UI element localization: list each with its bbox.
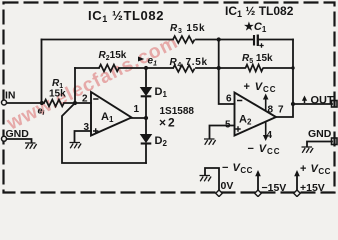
wire left vertical input to top row [41,40,43,104]
svg-text:R4 7.5k: R4 7.5k [170,57,208,69]
ground symbol 0V [200,176,212,182]
wire right feedback vertical [292,40,294,105]
op-amp A2 minus sign [237,100,242,102]
arrowhead +15V lead [294,170,300,176]
diode D2 [141,135,152,144]
node dot R5 right [291,66,294,69]
resistor R5 [246,65,263,72]
svg-text:GND: GND [308,128,332,140]
wire R2/R4/R5 row [75,67,293,69]
resistor R1 [44,100,64,107]
wire A2 output [276,104,293,117]
watermark www.elecfans.com [3,31,182,135]
terminal diamond +15V [294,190,301,197]
node dot A1 inverting input [73,101,77,105]
ground symbol GND-right [302,147,314,153]
resistor R2 [99,65,119,72]
node dot summing R4/R5 [217,66,221,70]
svg-text:R5 15k: R5 15k [242,53,273,65]
svg-text:15k: 15k [49,89,66,100]
wire 0V bracket [205,168,219,191]
resistor R4 [173,65,195,72]
op-amp A2 [235,93,277,136]
wire vertical at summing node to A2 pin6 [219,40,235,105]
op-amp A1 minus sign [93,98,98,100]
svg-text:R3 15k: R3 15k [170,23,205,35]
arrowhead -15V lead [255,170,261,176]
terminal GND-left [2,136,7,141]
wire OUT lead [293,103,332,105]
wire vertical node to R2 row [74,68,76,103]
op-amp A2 plus sign [235,126,240,131]
wire diode chain vertical [145,68,147,163]
terminal OUT [332,101,338,108]
svg-text:8: 8 [268,105,274,116]
wire IN row [6,102,91,104]
wire top feedback row [42,39,294,41]
capacitor C1 polarity + [259,43,263,47]
svg-text:+15V: +15V [300,182,325,194]
svg-text:3: 3 [84,122,90,133]
svg-text:×2: ×2 [159,116,177,130]
terminal diamond -15V [255,190,262,197]
svg-text:OUT: OUT [311,95,335,107]
svg-text:1: 1 [134,104,140,115]
svg-text:5: 5 [225,120,231,131]
node dot top row [217,37,221,41]
svg-text:7: 7 [278,105,284,116]
svg-text:6: 6 [226,94,232,105]
diode D1 [141,88,152,97]
wire D2 return path [62,103,146,163]
OUT arrow [304,100,306,104]
svg-text:IC1 ½TL082: IC1 ½TL082 [88,8,164,24]
op-amp A1 plus sign [93,128,98,133]
node dot e1 [144,66,148,70]
op-amp A2 +Vcc pin 8 arrow [265,97,267,111]
terminal GND right [332,138,338,145]
wire GND terminal lead [6,139,32,143]
node dot output junction [291,102,295,106]
ground symbol A2 pin5 [204,139,216,145]
ground symbol A1 pin3 [70,143,82,149]
wire -15V lead [257,173,259,191]
wire A2 pin5 to ground [210,126,235,139]
wire +15V lead [296,173,298,191]
svg-text:R215k: R215k [99,50,127,62]
svg-text:0V: 0V [221,180,234,192]
op-amp A1 [91,92,132,136]
wire A1 output to diode node [132,117,147,119]
svg-text:IN: IN [5,90,16,102]
label e1 arrow wedge [138,57,144,62]
resistor R3 [173,36,195,43]
capacitor C1 [254,35,258,47]
wire A1 pin3 to ground [75,131,92,142]
frame border (dashed) [4,3,335,193]
svg-text:GND: GND [6,128,30,140]
node dot diode junction [144,116,148,120]
svg-text:2: 2 [82,94,88,105]
ground symbol at GND-left [25,143,37,149]
node dot input junction [40,101,44,105]
svg-text:IC1 ½ TL082: IC1 ½ TL082 [225,4,294,19]
svg-text:−15V: −15V [262,182,287,194]
wire GND right lead [307,142,332,147]
terminal IN [2,100,7,105]
terminal diamond 0V [216,190,223,197]
op-amp A2 -Vcc pin 4 arrow [265,122,267,137]
